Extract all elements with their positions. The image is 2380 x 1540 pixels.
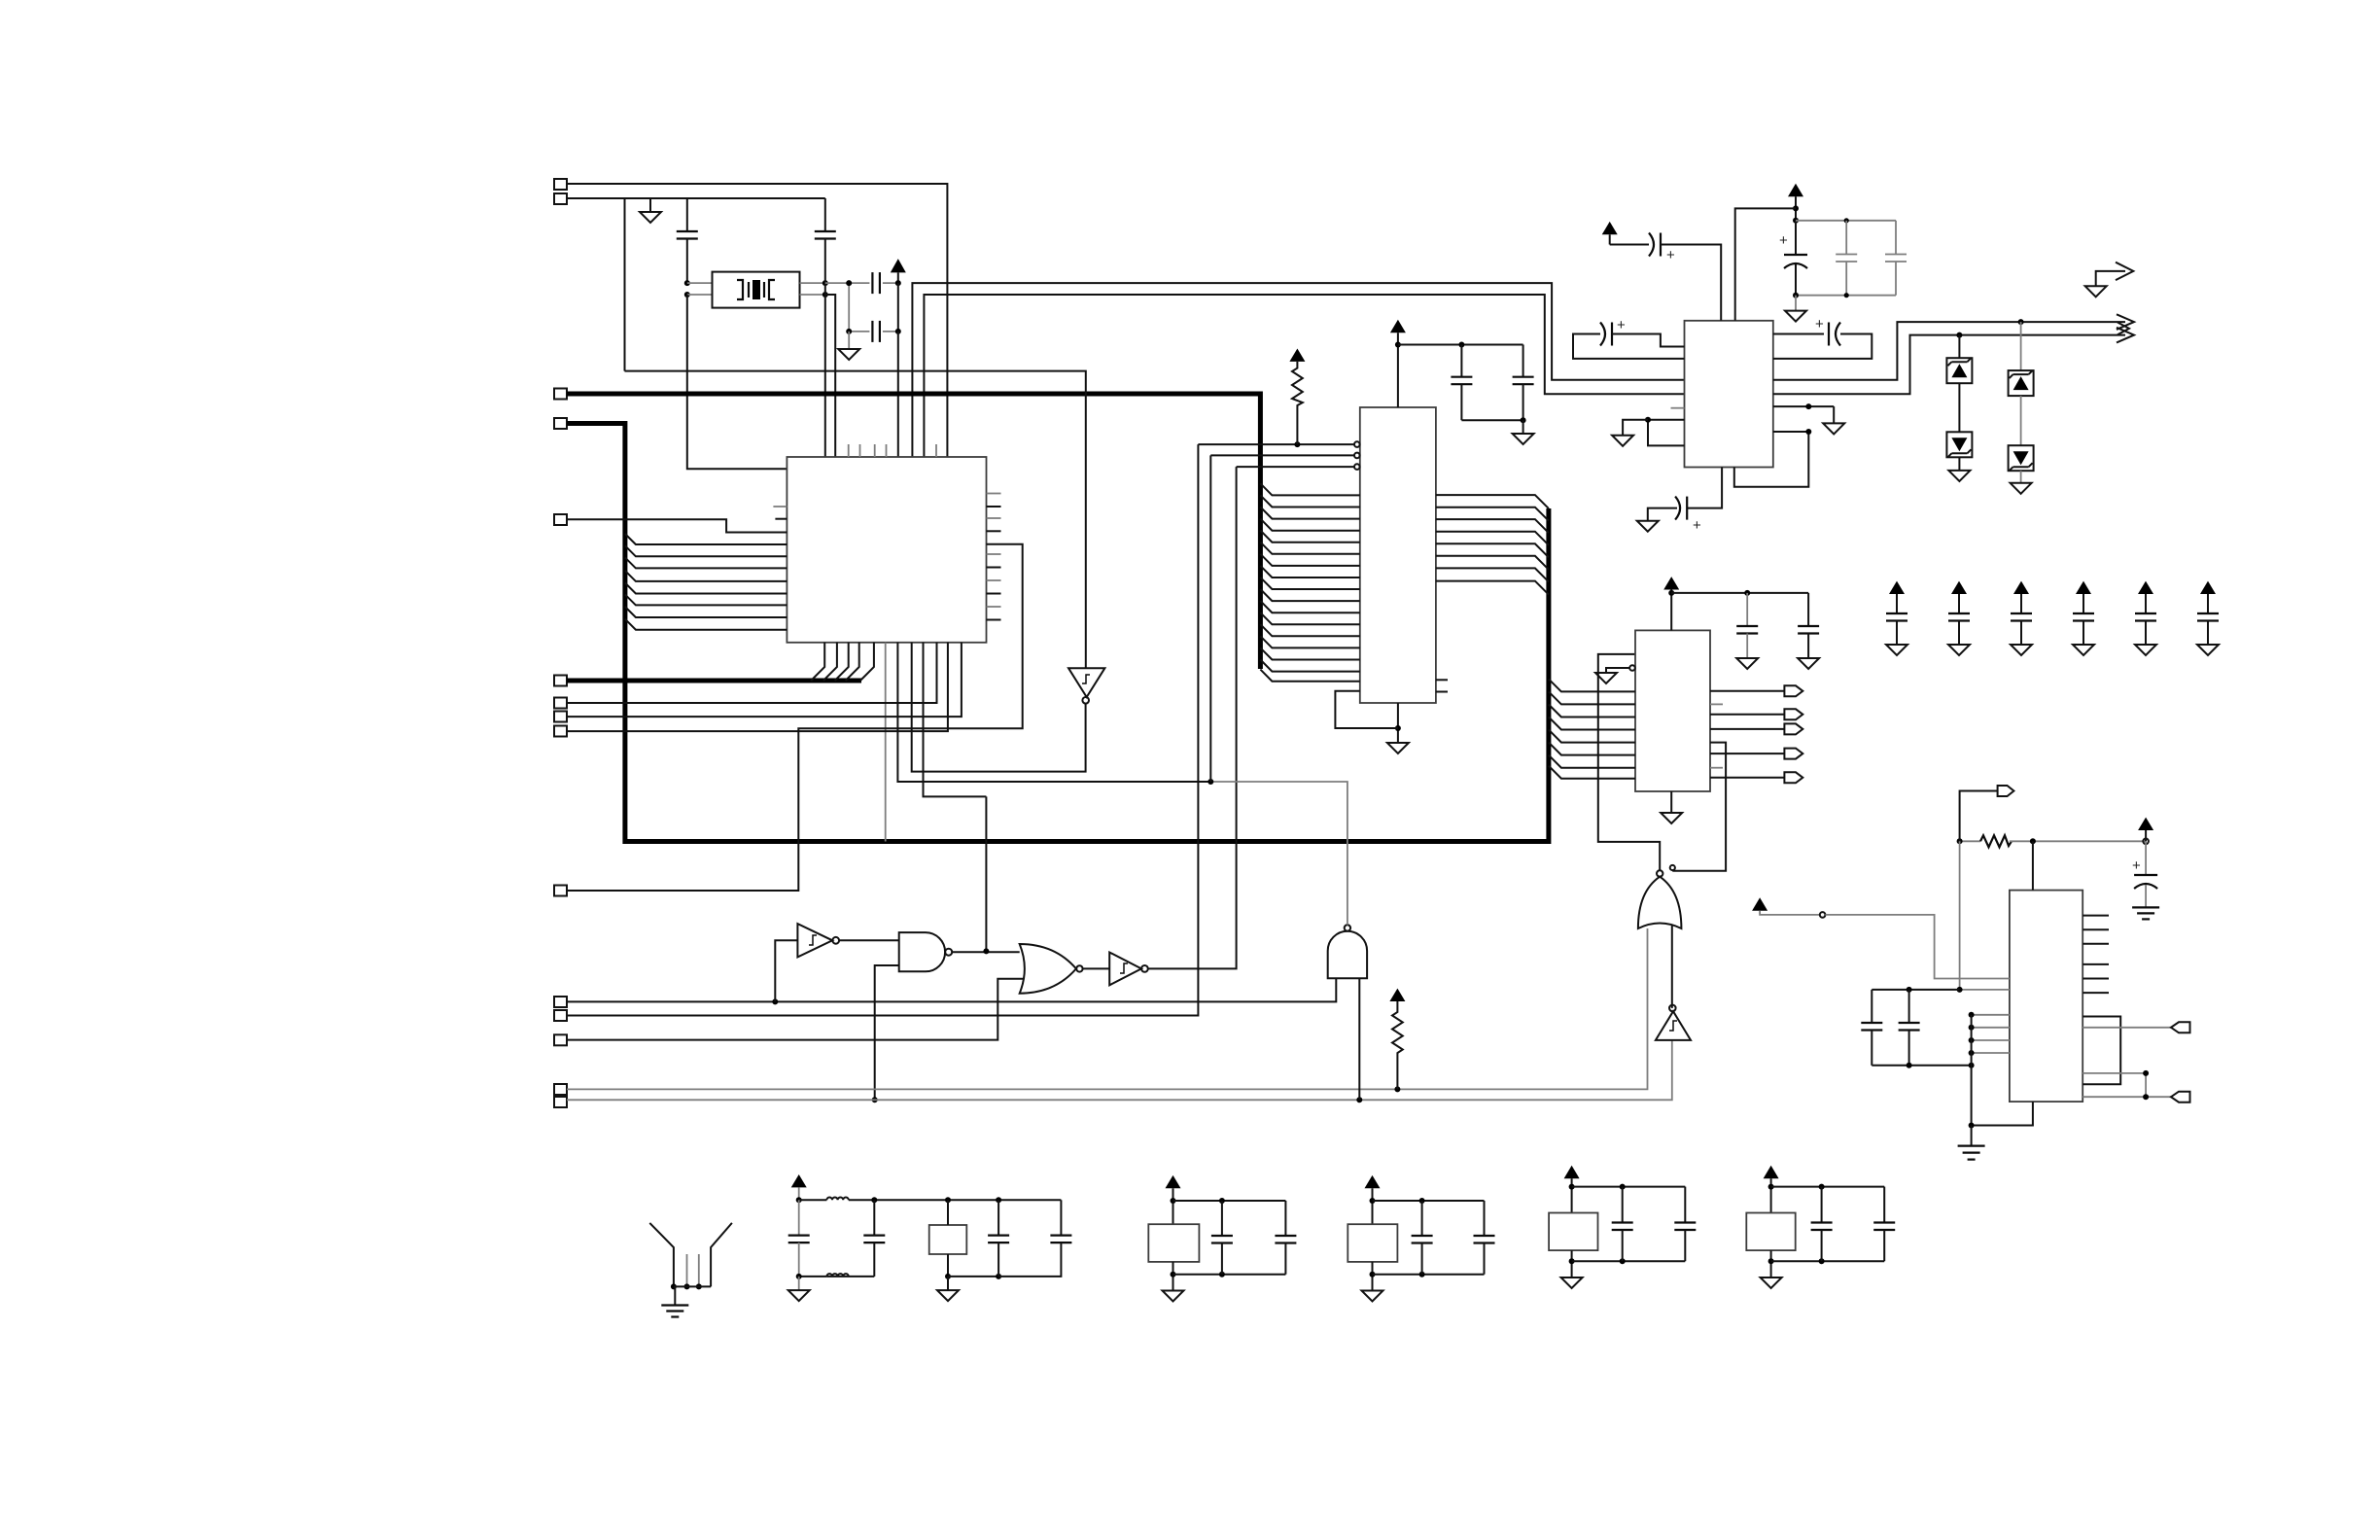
connector J5 (thick gnd bus): [554, 676, 567, 686]
thick bus wire to U2: [567, 394, 1260, 669]
U10 right stubs: [1710, 703, 1723, 705]
ground G3: [1522, 420, 1524, 434]
wire crystal left node to U1 left pin: [687, 295, 787, 469]
wire net B to U2 pin2: [1210, 454, 1354, 456]
filter 2: [1148, 1175, 1296, 1302]
arrow out 1: [2117, 314, 2134, 330]
wire J9 to U1 right pin: [567, 544, 1023, 891]
regulator U18: [1746, 1213, 1795, 1251]
U12 bottom cap C12 and ground: [1687, 468, 1722, 508]
capacitor CF3: [997, 1200, 999, 1235]
resistor R3: [1960, 840, 1980, 842]
filter 1: [788, 1174, 1072, 1301]
wire U10 vcc to caps: [1671, 592, 1808, 594]
capacitor C9: [1895, 221, 1897, 255]
wire loop right: [2082, 1073, 2146, 1097]
earth ground E1: [2132, 906, 2159, 908]
capacitor C10 polarized horizontal: [1610, 244, 1649, 246]
ground G5: [1623, 420, 1648, 436]
node crystal right: [822, 280, 828, 286]
wire J8 to U1: [567, 643, 948, 731]
capacitor CF1: [798, 1200, 800, 1235]
connector J14 (gray): [554, 1097, 567, 1107]
power VCC arrow A1: [891, 259, 906, 272]
arrow output top: [1960, 791, 1998, 842]
capacitor: [1421, 1201, 1423, 1236]
filter 3: [1347, 1175, 1494, 1302]
wire J10 row to AND gate: [567, 978, 1336, 1001]
connector J12: [554, 1034, 567, 1045]
U1 bottom pin inverter loop: [912, 643, 1086, 772]
regulator U16: [1347, 1224, 1397, 1262]
zener D2: [1946, 432, 1972, 457]
wire U4 out to NAND: [839, 939, 899, 941]
connector J4: [554, 514, 567, 525]
wire buffer output up to U10: [1672, 743, 1726, 871]
capacitor C3 top: [849, 282, 869, 284]
resistor R1 with VCC: [1389, 989, 1405, 1001]
U10 left bus ripper lines: [1549, 679, 1635, 691]
capacitor: [1883, 1187, 1885, 1223]
IC U12 (power): [1685, 321, 1773, 468]
capacitor C21: [1807, 593, 1809, 626]
connector J1 pin 1: [554, 179, 567, 190]
wire VCC arrow A7 left feed: [1752, 897, 1767, 910]
wire U1 top pin aux: [825, 295, 835, 457]
wire J12 to OR bottom input: [567, 979, 1024, 1040]
ground G2: [848, 332, 850, 349]
VCC arrow F1: [791, 1174, 807, 1187]
U13 right lower wires: [2082, 1017, 2120, 1085]
inductor L2: [826, 1276, 874, 1277]
VCC arrow A4 left: [1602, 222, 1618, 234]
wire VCC stem to U1: [897, 283, 899, 332]
svg-text:+: +: [1666, 247, 1675, 263]
wire U13 top pin: [2032, 841, 2034, 890]
ground G4: [1795, 296, 1797, 311]
OR gate U6: [1020, 944, 1076, 994]
IC U1: [787, 457, 986, 643]
U2 lower-left step wire: [1335, 691, 1398, 728]
capacitor C23: [1871, 990, 1872, 1023]
NOR right input from buffer: [1671, 925, 1673, 1008]
wire U2 pin vertical: [1209, 455, 1211, 782]
speaker / pickup symbol: [649, 1223, 732, 1317]
capacitor: [1284, 1201, 1286, 1236]
U10 left pin circle and ground: [1629, 665, 1635, 671]
wire caps bottom rail: [1461, 419, 1522, 421]
wire net C to U2 pin3: [1237, 466, 1354, 468]
top rail: [849, 1199, 1062, 1201]
connector J3 (thick net): [554, 418, 567, 429]
wire U1 pin to T-line 1: [912, 283, 1684, 457]
resistor R2 with VCC: [1289, 349, 1305, 362]
IC U13: [2010, 891, 2082, 1102]
U12 output line 2: [1773, 335, 2125, 395]
zener D4: [2009, 445, 2034, 471]
wire J1.1 to IC U1 top pin: [567, 184, 947, 457]
wire branch down at 642.5: [624, 198, 626, 371]
buffer U11 (points up): [1656, 1011, 1691, 1040]
connector J11: [554, 1010, 567, 1021]
connector J2 (thick net): [554, 389, 567, 400]
U2 bottom ground: [1397, 703, 1399, 743]
wire cap row top rail: [1796, 220, 1896, 222]
connector J13 (gray): [554, 1084, 567, 1095]
svg-text:+: +: [1617, 317, 1626, 333]
U12 right lower pin loop: [1773, 405, 1834, 407]
earth ground E2: [1958, 1144, 1985, 1146]
wire J6 to U1: [567, 643, 937, 703]
inverter U3 (points down): [1068, 668, 1104, 697]
U2 VCC arrow: [1390, 320, 1406, 332]
earth ground E3: [661, 1304, 688, 1306]
node cap pair left: [848, 283, 850, 332]
capacitor CF2: [873, 1200, 875, 1235]
IC U10: [1635, 630, 1710, 791]
VCC arrow A3: [1788, 184, 1803, 196]
U1 bottom gray pin: [885, 643, 887, 842]
U12 left gray stub: [1671, 407, 1685, 409]
inverter U4: [797, 924, 832, 957]
connector J10: [554, 997, 567, 1007]
svg-text:+: +: [1815, 316, 1824, 332]
wire VCC to caps: [1398, 344, 1523, 346]
cap bank C15: [1951, 581, 1967, 594]
wire J14 row to buffer input: [567, 1040, 1672, 1100]
U13 right upper stubs: [2082, 915, 2109, 917]
thick bus wire left vertical: [567, 424, 1549, 842]
U2 right output lines merge to thick bus: [1436, 495, 1549, 508]
wire C11 left loop: [1573, 334, 1685, 359]
U10 VCC arrow: [1663, 577, 1679, 589]
svg-text:+: +: [2132, 857, 2141, 874]
thick wire J5 with merge into U1 bottom pins: [567, 679, 861, 683]
U1 top gray pin stubs: [848, 444, 850, 457]
capacitor: [1484, 1201, 1486, 1236]
regulator U15: [1148, 1224, 1199, 1262]
VCC arrow A6: [2138, 818, 2153, 830]
U1 right pin stubs: [987, 493, 1001, 495]
capacitor C1: [686, 198, 688, 231]
wire OR out to inverter U7: [1083, 967, 1110, 969]
bus ripper lines into U1 left: [625, 534, 787, 544]
filter 5: [1746, 1166, 1895, 1288]
cap bank C14: [1889, 581, 1905, 594]
capacitor C5: [1460, 345, 1462, 377]
top right NC arrow with ground: [2096, 271, 2125, 286]
wire R3 node down to U13 pin: [1960, 841, 2010, 990]
NOR gate U9 (points up): [1638, 877, 1682, 928]
capacitor: [1221, 1201, 1223, 1236]
NAND gate U5: [899, 932, 945, 971]
wire crystal to cap pair: [825, 282, 849, 284]
zener D1: [1958, 335, 1960, 359]
wire NAND feed vertical: [985, 796, 987, 951]
capacitor C22 electrolytic: [2145, 841, 2147, 875]
U2 right lower stubs: [1436, 679, 1448, 681]
U1 bottom pin to AND gate net: [897, 643, 1210, 782]
inverter U7: [1109, 953, 1141, 986]
ground F1: [798, 1277, 800, 1290]
wire to arrow in 1: [2082, 1027, 2171, 1029]
wire J11 row to bus vertical: [567, 444, 1198, 1015]
connector J6: [554, 698, 567, 709]
wire U1 pin to T-line 2: [924, 295, 1684, 457]
AND right input: [1358, 978, 1360, 1100]
svg-text:+: +: [1693, 517, 1701, 534]
U10 output arrows: [1710, 690, 1784, 692]
filter 4: [1549, 1166, 1696, 1288]
connector J9: [554, 886, 567, 896]
capacitor C7 electrolytic: [1793, 218, 1799, 224]
svg-text:+: +: [1779, 232, 1788, 249]
capacitor C24: [1908, 990, 1910, 1023]
wire inverter feed vertical: [625, 371, 1086, 669]
capacitor C20: [1746, 593, 1748, 626]
regulator U14: [929, 1225, 967, 1254]
capacitor C6: [1522, 345, 1524, 377]
wire crystal right pins: [800, 282, 825, 284]
wire J7 to U1: [567, 643, 962, 717]
U12 gnd pins loop: [1648, 420, 1685, 446]
U12 output line 1: [1773, 322, 2125, 380]
cap bank C19: [2200, 581, 2216, 594]
U1 left gray stubs: [773, 506, 787, 507]
wire R3 to VCC node: [2010, 840, 2146, 842]
capacitor CF4: [1060, 1200, 1062, 1235]
U2 left bus ripper lines: [1260, 483, 1359, 495]
capacitor C11 polarized left of U12: [1600, 323, 1605, 346]
U13 left stub pins: [1972, 1014, 2010, 1016]
capacitor: [1684, 1187, 1686, 1223]
cap bank C18: [2138, 581, 2153, 594]
inductor L1: [799, 1199, 827, 1201]
wire U8 output up to bus: [1210, 782, 1347, 925]
wire tap to inverter U4 input: [775, 940, 797, 1001]
AND gate U8 (points up): [1328, 931, 1367, 979]
U10 bottom ground: [1670, 791, 1672, 813]
capacitor: [1622, 1187, 1624, 1223]
wire J4 to U1: [567, 519, 787, 532]
wire NAND out to OR: [952, 951, 1019, 953]
U1 bottom pin to NAND feed: [924, 643, 987, 797]
wire cap row bottom rail: [1796, 295, 1896, 297]
U12 right cap C13 loop: [1773, 333, 1824, 335]
U2 pin circles: [1354, 441, 1360, 447]
capacitor C2: [824, 198, 826, 231]
wire J13 row to NOR left input: [567, 928, 1648, 1089]
crystal Y1: [713, 272, 800, 308]
wire U7 out to U2 pin net: [1148, 467, 1237, 968]
zener D3: [2020, 322, 2022, 370]
capacitor: [1821, 1187, 1823, 1223]
arrow out 2: [2117, 328, 2134, 343]
wire to arrow in 2: [2082, 1096, 2171, 1098]
connector J1 pin 2: [554, 193, 567, 204]
wire net A to U2 pin1: [1198, 443, 1354, 445]
wire cap top rail: [1872, 989, 1959, 991]
U1 bottom pin merge diagonals: [811, 643, 824, 681]
wire U13 gnd net: [1972, 1015, 2033, 1126]
NAND bottom input wire: [875, 965, 899, 1100]
cap bank C17: [2076, 581, 2091, 594]
cap bank C16: [2013, 581, 2029, 594]
wire NOR output to U10 pin: [1598, 654, 1660, 870]
decoupling cap bank: [1886, 581, 1907, 655]
wire J1.2 crystal top rail: [567, 197, 825, 199]
wire VCC to U12 top pin: [1735, 208, 1796, 320]
connector J7: [554, 712, 567, 722]
node crystal left: [684, 280, 690, 286]
connector J8: [554, 726, 567, 737]
capacitor C4 bottom: [849, 331, 869, 332]
wire caps bottom rail: [1872, 1065, 1971, 1067]
ground G1: [649, 198, 651, 212]
IC U2: [1360, 407, 1436, 703]
capacitor C8: [1845, 221, 1847, 255]
regulator U17: [1549, 1213, 1597, 1251]
